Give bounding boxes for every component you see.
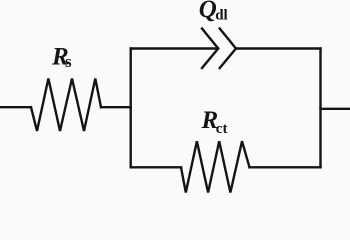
wire right rail (319, 49, 321, 168)
svg-text:ct: ct (216, 121, 228, 137)
wire bottom right (250, 166, 321, 168)
wire top left (131, 47, 218, 49)
wire bottom left (131, 166, 181, 168)
resistor R_s (31, 79, 101, 132)
wire right terminal (321, 108, 350, 110)
wire left rail (129, 49, 131, 168)
wire top right (236, 47, 321, 49)
svg-text:s: s (65, 52, 72, 71)
wire left terminal (0, 106, 31, 108)
CPE Q_dl chevron 1 (202, 29, 218, 69)
wire R_s to left node (101, 106, 131, 108)
svg-text:Q: Q (199, 0, 217, 23)
CPE Q_dl chevron 2 (220, 29, 236, 69)
svg-text:dl: dl (215, 8, 228, 24)
resistor R_ct (181, 141, 250, 192)
